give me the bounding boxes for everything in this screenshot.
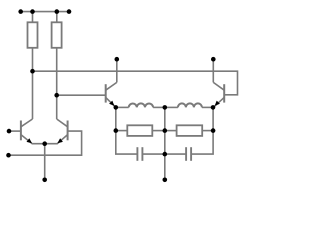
resistor R3 (127, 125, 152, 136)
transistor Q2 (45, 119, 68, 144)
wire node A to R3 (116, 130, 128, 132)
wire node C column (191, 107, 213, 154)
wire R2 bottom to Q2 collector (56, 48, 58, 119)
wire emitter tail (44, 144, 46, 180)
wire C1 to node B (142, 153, 164, 155)
node Q5 collector terminal (211, 57, 216, 62)
wire L1 to node B (153, 106, 165, 108)
resistor R4 (177, 125, 203, 136)
wire Q3 base (57, 94, 106, 96)
transistor Q1 (9, 119, 45, 144)
node B row2 (163, 128, 168, 133)
arrow Q3 emitter (109, 101, 114, 106)
wire Q2 base loop (9, 131, 82, 155)
node Q1 base terminal (7, 129, 12, 134)
wire top supply rail (21, 11, 69, 13)
wire node A column (116, 107, 138, 154)
node C row2 (211, 128, 216, 133)
resistor R1 (28, 22, 38, 48)
arrow Q5 emitter (215, 101, 220, 106)
node R1 top (30, 9, 35, 14)
transistor Q3 (106, 59, 117, 107)
node R2 top (55, 9, 60, 14)
wire main rail to Q5 base loop (33, 71, 238, 95)
node B (163, 105, 168, 110)
node A row2 (114, 128, 119, 133)
capacitor C2 (186, 147, 191, 161)
node terminal top-right of rail (67, 9, 72, 14)
node R1 bottom junction (30, 69, 35, 74)
node terminal top-left (18, 9, 23, 14)
capacitor C1 (137, 147, 142, 161)
transistor Q5 (213, 59, 224, 107)
node Q2 base terminal (6, 153, 11, 158)
wire L2 to node C (202, 106, 213, 108)
wire R3 to node B (152, 130, 165, 132)
node Q3 collector terminal (115, 57, 120, 62)
wire R1 bottom to Q1 collector (32, 48, 34, 119)
node R2 bottom junction (54, 93, 59, 98)
node A (114, 105, 119, 110)
arrow Q2 emitter (57, 138, 63, 143)
node tail terminal (42, 178, 47, 183)
wire R1 top stub (32, 12, 34, 23)
wire node B to R4 (165, 130, 177, 132)
node B row3 (163, 152, 168, 157)
node common emitters (42, 141, 47, 146)
wire node B to L2 (165, 106, 178, 108)
node C (211, 105, 216, 110)
wire node B to C2 (165, 153, 186, 155)
inductor L1 (129, 103, 153, 107)
wire node B column (164, 107, 166, 179)
wire R4 to node C (202, 130, 213, 132)
node B bottom terminal (163, 178, 168, 183)
wire node A to L1 (116, 106, 129, 108)
arrow Q1 emitter (27, 138, 33, 143)
resistor R2 (52, 22, 62, 48)
wire R2 top stub (56, 12, 58, 23)
inductor L2 (178, 103, 202, 107)
